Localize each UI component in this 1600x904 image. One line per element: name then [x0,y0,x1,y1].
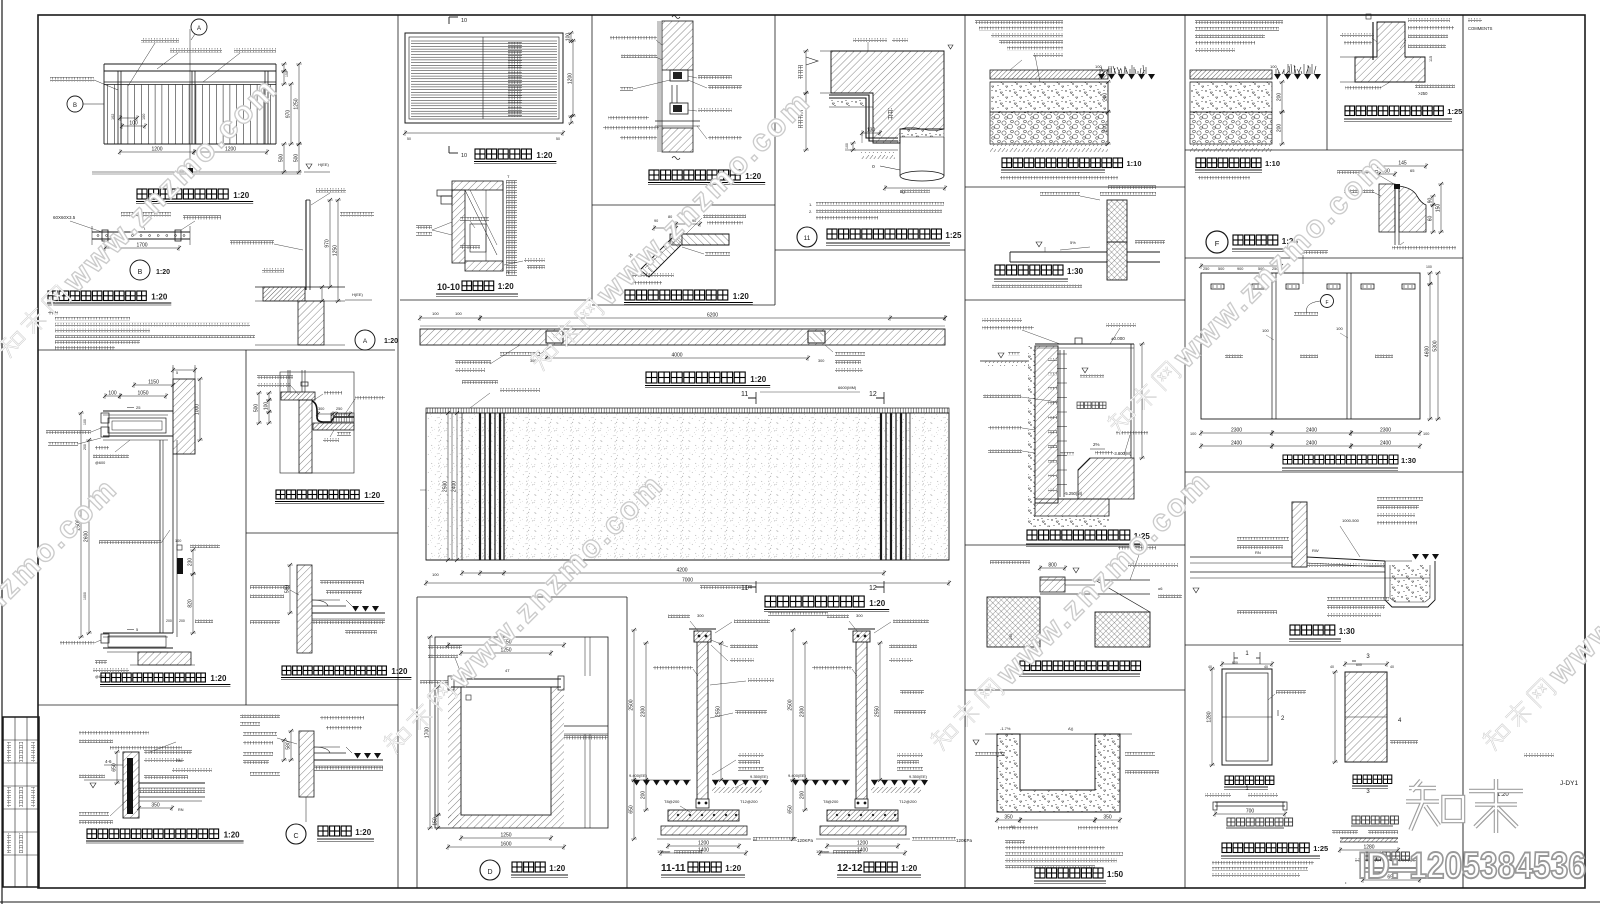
svg-text:F: F [1215,239,1220,248]
svg-text:650: 650 [629,805,635,814]
svg-text:1:25: 1:25 [1313,844,1328,853]
svg-text:RN: RN [178,808,184,812]
svg-text:700: 700 [1246,809,1255,815]
svg-text:A: A [197,26,201,32]
svg-text:120KPa: 120KPa [956,838,973,843]
svg-text:970: 970 [286,110,292,119]
svg-text:1:30: 1:30 [1067,267,1084,276]
svg-text:90: 90 [1428,198,1434,204]
svg-text:2.: 2. [809,209,812,214]
svg-text:9.350(EE): 9.350(EE) [909,774,928,779]
svg-text:T8@200: T8@200 [823,799,839,804]
svg-text:650: 650 [112,763,118,772]
svg-text:1200: 1200 [698,841,709,847]
svg-text:11: 11 [741,585,748,592]
svg-text:±0.000: ±0.000 [1111,336,1125,341]
svg-text:200: 200 [179,619,185,623]
svg-text:2500: 2500 [443,481,449,492]
svg-text:100: 100 [1423,432,1429,436]
svg-text:10: 10 [461,153,467,159]
svg-text:100mm: 100mm [657,849,671,854]
svg-text:100: 100 [1426,265,1432,269]
svg-text:200: 200 [1277,93,1283,102]
svg-text:1:20: 1:20 [384,338,398,345]
svg-text:800: 800 [1048,563,1057,569]
svg-text:11-11: 11-11 [661,863,686,874]
svg-text:115: 115 [1429,56,1433,62]
svg-text:1150: 1150 [148,380,159,386]
svg-text:1700: 1700 [425,727,431,738]
svg-text:10: 10 [461,18,467,24]
svg-text:2300: 2300 [641,706,647,717]
svg-text:250: 250 [336,407,342,411]
svg-text:100: 100 [264,402,270,411]
svg-text:1200: 1200 [857,841,868,847]
svg-text:200: 200 [1103,93,1109,102]
svg-text:1:25: 1:25 [945,231,962,240]
svg-text:5%: 5% [1070,240,1076,245]
svg-text:1:10: 1:10 [1127,159,1142,168]
svg-text:1000-500: 1000-500 [1342,518,1360,523]
svg-text:1250: 1250 [294,98,300,109]
svg-text:1:20: 1:20 [233,191,250,200]
svg-text:1250: 1250 [500,833,511,839]
svg-text:1600: 1600 [500,842,511,848]
svg-text:100: 100 [83,419,87,425]
svg-text:10-10: 10-10 [437,282,460,292]
svg-text:>250: >250 [1418,91,1428,96]
svg-text:T12@200: T12@200 [899,799,917,804]
svg-text:1280: 1280 [1207,711,1213,722]
svg-text:1:20: 1:20 [355,828,372,837]
svg-text:200: 200 [800,791,806,800]
svg-text:9.400(EE): 9.400(EE) [788,773,807,778]
svg-text:500: 500 [294,154,300,163]
svg-text:H(EE): H(EE) [318,162,330,167]
svg-text:o6: o6 [1158,586,1163,591]
svg-text:245: 245 [1009,634,1013,640]
svg-text:2300: 2300 [1231,428,1242,434]
svg-text:100: 100 [108,391,117,397]
svg-text:RN: RN [176,759,182,763]
svg-text:40: 40 [1264,665,1268,669]
svg-text:12: 12 [869,585,877,592]
svg-text:100: 100 [175,539,181,543]
svg-text:4200: 4200 [676,568,687,574]
svg-text:4000: 4000 [671,353,682,359]
svg-text:100: 100 [432,572,439,577]
svg-text:1200: 1200 [568,73,574,84]
svg-text:ID: 1205384536: ID: 1205384536 [1358,845,1586,886]
svg-text:50: 50 [556,137,560,141]
svg-text:40: 40 [1330,665,1334,669]
svg-text:1:25: 1:25 [1447,107,1462,116]
svg-text:350: 350 [1103,815,1112,821]
svg-text:12-12: 12-12 [837,863,863,874]
svg-text:5: 5 [176,371,178,375]
svg-text:2500: 2500 [629,699,635,710]
svg-text:250: 250 [1203,267,1209,271]
svg-text:1:20: 1:20 [224,831,241,840]
svg-text:1:20: 1:20 [151,293,168,302]
svg-text:2400: 2400 [1306,428,1317,434]
svg-text:1050: 1050 [137,391,148,397]
svg-text:J-DY1: J-DY1 [1560,780,1578,787]
svg-text:-3.800(M): -3.800(M) [1113,451,1132,456]
svg-text:2400: 2400 [1306,441,1317,447]
svg-text:11: 11 [741,391,748,398]
svg-text:-5.250(M): -5.250(M) [1064,491,1083,496]
svg-text:2400: 2400 [452,481,458,492]
svg-text:580: 580 [285,585,291,594]
svg-text:4600: 4600 [1425,346,1431,357]
svg-text:65: 65 [1410,168,1415,173]
svg-text:2400: 2400 [1380,441,1391,447]
svg-text:100: 100 [1262,328,1269,333]
svg-text:600: 600 [1232,661,1238,665]
svg-text:2400: 2400 [1231,441,1242,447]
svg-text:60: 60 [1428,216,1434,222]
svg-text:900: 900 [1237,267,1243,271]
svg-text:1:30: 1:30 [1339,627,1356,636]
svg-text:200: 200 [1103,124,1109,133]
svg-text:@600: @600 [95,461,105,465]
svg-text:6600(MM): 6600(MM) [838,385,857,390]
svg-text:1.: 1. [809,202,812,207]
svg-text:1:20: 1:20 [498,282,515,291]
svg-text:145: 145 [1398,161,1407,167]
svg-text:F: F [1325,300,1328,306]
svg-text:500: 500 [254,404,260,413]
svg-text:100: 100 [845,143,849,149]
svg-text:9.400(EE): 9.400(EE) [629,773,648,778]
svg-text:25: 25 [136,405,141,410]
svg-text:40: 40 [1208,665,1212,669]
svg-text:-1.7%: -1.7% [1000,726,1011,731]
svg-text:RN: RN [1255,550,1261,555]
svg-text:1250: 1250 [333,245,339,256]
svg-text:C: C [293,833,298,840]
svg-text:200: 200 [641,791,647,800]
svg-text:1:20: 1:20 [733,292,750,301]
svg-text:H(EE): H(EE) [352,292,364,297]
svg-text:1:20: 1:20 [364,491,381,500]
svg-text:RW: RW [1312,548,1319,553]
svg-text:1:30: 1:30 [1401,456,1416,465]
svg-text:2%: 2% [1093,442,1100,447]
svg-text:1:20: 1:20 [391,667,408,676]
svg-text:100: 100 [1095,64,1102,69]
svg-text:12: 12 [869,391,877,398]
svg-text:1200: 1200 [151,147,162,153]
svg-text:A: A [363,338,368,345]
svg-text:4T: 4T [505,668,510,673]
svg-text:T8@200: T8@200 [664,799,680,804]
svg-text:200: 200 [83,444,87,450]
svg-text:T12@200: T12@200 [740,799,758,804]
svg-text:100: 100 [1190,432,1196,436]
svg-text:1:20: 1:20 [156,269,170,276]
svg-text:11: 11 [804,235,811,242]
svg-text:2500: 2500 [788,699,794,710]
svg-text:820: 820 [188,599,194,608]
svg-text:120KPa: 120KPa [797,838,814,843]
svg-text:9.350(EE): 9.350(EE) [750,774,769,779]
svg-text:350: 350 [151,803,160,809]
svg-text:100mm: 100mm [816,849,830,854]
svg-text:300: 300 [818,359,824,363]
svg-text:1:20: 1:20 [869,599,886,608]
svg-text:580: 580 [286,741,292,750]
svg-text:600: 600 [1356,663,1362,667]
svg-text:50: 50 [407,137,411,141]
svg-text:300: 300 [856,613,863,618]
svg-text:100: 100 [432,311,439,316]
svg-text:B: B [73,103,77,109]
svg-text:40: 40 [1390,665,1394,669]
svg-text:200: 200 [1277,124,1283,133]
svg-text:1:20: 1:20 [210,674,227,683]
svg-text:7000: 7000 [682,578,693,584]
svg-text:D: D [487,869,492,876]
svg-text:2550: 2550 [716,706,722,717]
svg-text:B: B [138,269,143,276]
svg-text:1:20: 1:20 [549,864,566,873]
svg-text:6200: 6200 [707,313,718,319]
svg-text:500: 500 [1218,267,1224,271]
svg-text:1:20: 1:20 [725,864,742,873]
svg-text:1:50: 1:50 [1107,870,1124,879]
svg-text:230: 230 [188,558,194,567]
svg-text:1000: 1000 [83,592,87,600]
svg-text:1:20: 1:20 [901,864,918,873]
svg-text:1:10: 1:10 [1265,159,1280,168]
svg-text:300: 300 [318,407,324,411]
svg-text:300: 300 [697,613,704,618]
svg-text:100: 100 [1270,64,1277,69]
svg-text:1:20: 1:20 [536,151,553,160]
svg-text:102: 102 [111,114,115,120]
svg-text:970: 970 [325,239,331,248]
svg-text:4-6: 4-6 [105,759,112,764]
svg-text:350: 350 [1004,815,1013,821]
svg-text:100: 100 [1336,326,1343,331]
svg-text:2550: 2550 [875,706,881,717]
svg-text:60X60X3.5: 60X60X3.5 [53,215,76,220]
svg-text:5300: 5300 [1433,340,1439,351]
svg-text:2300: 2300 [1380,428,1391,434]
svg-text:500: 500 [279,154,285,163]
svg-text:150: 150 [285,71,289,77]
svg-text:1:20: 1:20 [750,375,767,384]
svg-text:100: 100 [129,121,138,127]
svg-text:100: 100 [142,114,146,120]
svg-text:200: 200 [166,619,172,623]
svg-text:1000: 1000 [195,404,201,415]
svg-text:150: 150 [1436,204,1442,213]
svg-text:2300: 2300 [800,706,806,717]
svg-text:A)): A)) [1068,726,1074,731]
svg-text:100: 100 [566,33,572,42]
svg-text:150: 150 [433,817,439,826]
svg-text:COMMENTS: COMMENTS [1468,26,1493,31]
svg-text:o: o [872,164,875,170]
svg-text:100: 100 [455,311,462,316]
svg-text:1700: 1700 [136,243,147,249]
svg-text:650: 650 [788,805,794,814]
svg-text:130: 130 [867,128,876,134]
